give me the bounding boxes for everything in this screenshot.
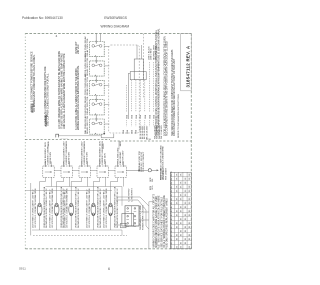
bake element xyxy=(43,165,54,177)
console dashed boundary line xyxy=(143,34,145,98)
wire below latch switch S5 xyxy=(110,216,112,230)
broil relay K2 xyxy=(90,60,105,76)
wire hook from element box to latch switch S5 xyxy=(111,177,118,203)
svg-text:2500W 240V: 2500W 240V xyxy=(86,151,88,164)
upper horizontal bus xyxy=(46,186,123,188)
svg-text:AND GAUGE. ALL REPLACEMENT WIR: AND GAUGE. ALL REPLACEMENT WIRE MUST BE … xyxy=(62,53,66,129)
svg-text:RELAY 240V COIL: RELAY 240V COIL xyxy=(86,76,89,95)
svg-text:OF ALL TERMINAL BOARD CONNECTI: OF ALL TERMINAL BOARD CONNECTIONS MADE xyxy=(163,195,166,248)
svg-text:REFER TO INSTALLATION INSTRUCT: REFER TO INSTALLATION INSTRUCTIONS xyxy=(177,94,180,138)
junction dot below K5 xyxy=(104,133,105,134)
door lock switch S2 xyxy=(54,203,59,216)
harness wire at x=126.6 xyxy=(126,85,128,112)
svg-text:L1 BK SUPPLY: L1 BK SUPPLY xyxy=(129,188,131,202)
oven light switch S1 xyxy=(37,203,42,216)
svg-text:240 VAC: 240 VAC xyxy=(76,44,80,54)
solid boundary above divider xyxy=(58,135,101,137)
lower bus hook xyxy=(121,230,123,235)
svg-text:BK14: BK14 xyxy=(171,224,173,228)
harness wire stub at x=149.3 xyxy=(148,120,150,127)
svg-text:FOB: FOB xyxy=(146,139,151,141)
svg-text:SHOWN WITH DOOR CLOSED N.C. BK: SHOWN WITH DOOR CLOSED N.C. BK-12 xyxy=(78,188,80,228)
wire between relays xyxy=(95,96,97,100)
svg-text:BK14: BK14 xyxy=(171,244,173,248)
wire below oven light switch S1 xyxy=(39,216,41,230)
harness wire stub at x=144.8 xyxy=(144,120,146,127)
svg-text:RELAY 240V COIL: RELAY 240V COIL xyxy=(86,57,89,76)
harness wire at x=135.9 xyxy=(135,80,137,112)
top stub conv element left xyxy=(81,162,83,166)
svg-text:WIRING COLOR CODE CHART FOR AL: WIRING COLOR CODE CHART FOR ALL CIRCUITS xyxy=(153,194,156,248)
svg-text:120 VOLT N.O. CONTACTS SHOWN O: 120 VOLT N.O. CONTACTS SHOWN OPEN xyxy=(51,188,54,228)
top stub warmer element left xyxy=(99,162,101,166)
junction on fuse wire xyxy=(138,170,139,171)
svg-text:BK4: BK4 xyxy=(131,130,133,134)
wire relay to control boundary xyxy=(104,104,109,106)
svg-text:BK14: BK14 xyxy=(171,200,173,204)
harness wire stub at x=135.9 xyxy=(135,120,137,127)
svg-text:LINE 2 RED: LINE 2 RED xyxy=(151,48,153,60)
svg-text:BK4: BK4 xyxy=(127,115,129,119)
wire between element boxes xyxy=(72,169,79,171)
svg-text:LETTERS INDICATE INSULATION CO: LETTERS INDICATE INSULATION COLORS HERE xyxy=(158,195,161,248)
svg-text:MOTOR 240V: MOTOR 240V xyxy=(122,150,124,164)
wire divider to element label xyxy=(118,141,120,149)
drop from upper bus to terminal block xyxy=(121,187,123,206)
svg-text:BK14: BK14 xyxy=(171,228,173,232)
supply wire 2 from frame top to relay K1 xyxy=(100,34,102,42)
wire hook from element box to door lock switch S2 xyxy=(57,177,64,203)
wiring legend table xyxy=(170,172,191,249)
svg-text:BK14: BK14 xyxy=(171,183,173,187)
svg-text:NUMBERS INDICATE WIRE GAUGE SI: NUMBERS INDICATE WIRE GAUGE SIZES USED xyxy=(155,196,158,248)
svg-text:SHOWN WITH DOOR CLOSED N.C. BK: SHOWN WITH DOOR CLOSED N.C. BK-12 xyxy=(100,188,102,228)
broil element xyxy=(61,165,72,177)
wire hook from element box to thermal limiter S4 xyxy=(93,177,99,203)
drop from warmer element to bus xyxy=(105,177,107,186)
svg-text:3400W 240V: 3400W 240V xyxy=(50,151,52,164)
harness wire at x=131.4 xyxy=(130,80,132,112)
supply wire from frame top to relay K1 xyxy=(95,34,97,42)
svg-text:750W 240V: 750W 240V xyxy=(104,153,106,165)
drop from conv element to bus xyxy=(87,177,89,186)
left vertical wire rail xyxy=(30,183,32,235)
wire between relays xyxy=(95,57,97,61)
wire hook from element box to oven light switch S1 xyxy=(40,177,46,203)
svg-text:BK14: BK14 xyxy=(171,208,173,212)
svg-text:BK4: BK4 xyxy=(140,115,142,119)
top stub bake element left xyxy=(45,162,47,166)
svg-text:WIRING ERRORS CAN CAUSE IMPROP: WIRING ERRORS CAN CAUSE IMPROPER OPERATI… xyxy=(76,65,80,130)
arrow terminal xyxy=(157,169,159,171)
svg-text:BK4: BK4 xyxy=(127,130,129,134)
svg-text:4A BK: 4A BK xyxy=(65,140,68,146)
svg-text:POWER SUPPLY 120/240V: POWER SUPPLY 120/240V xyxy=(142,204,144,230)
wire terminal block right 1 xyxy=(139,211,149,213)
harness wire stub at x=131.4 xyxy=(130,120,132,127)
drop from broil element to bus xyxy=(69,177,71,186)
legend notes block boundary xyxy=(149,202,153,249)
cooling fan motor xyxy=(115,165,126,177)
svg-text:BK14: BK14 xyxy=(171,195,173,199)
drop from cooling fan motor to bus xyxy=(123,177,125,186)
svg-text:BK14: BK14 xyxy=(171,220,173,224)
svg-text:120 VOLT N.O. CONTACTS SHOWN O: 120 VOLT N.O. CONTACTS SHOWN OPEN xyxy=(66,188,69,228)
top stub cooling fan motor left xyxy=(117,162,119,166)
svg-text:RELAY 240V COIL: RELAY 240V COIL xyxy=(86,115,89,134)
harness wire at x=153.7 xyxy=(153,62,155,112)
wire relay to control boundary xyxy=(104,84,109,86)
wire into P1 pin 1 xyxy=(136,45,138,59)
svg-text:YEL: YEL xyxy=(152,178,154,182)
svg-text:L2 RD SUPPLY: L2 RD SUPPLY xyxy=(132,188,134,202)
svg-text:RELAY 240V COIL: RELAY 240V COIL xyxy=(86,96,89,115)
drop from bake element to bus xyxy=(51,177,53,186)
svg-text:BK4: BK4 xyxy=(123,130,125,134)
svg-text:4000W 240V: 4000W 240V xyxy=(68,151,70,164)
wire from P2 to left harness xyxy=(128,73,130,119)
svg-text:ALL WIRING MUST CONFORM TO LOC: ALL WIRING MUST CONFORM TO LOCAL CODES. xyxy=(32,54,36,112)
EOC connector P2 body xyxy=(130,72,146,80)
svg-text:USE COPPER CONDUCTORS ONLY FOR: USE COPPER CONDUCTORS ONLY FOR ALL. xyxy=(45,73,49,126)
wire relay to control boundary xyxy=(104,123,109,125)
harness wire at x=144.8 xyxy=(144,80,146,112)
svg-text:120 VOLT N.O. CONTACTS SHOWN O: 120 VOLT N.O. CONTACTS SHOWN OPEN xyxy=(88,188,91,228)
svg-text:Publication No: 5995447130: Publication No: 5995447130 xyxy=(22,16,63,20)
wire element box 5 to fuse xyxy=(126,169,147,171)
wire below thermal limiter S4 xyxy=(92,216,94,230)
title block strip xyxy=(181,33,192,90)
svg-text:RELAY 240V COIL: RELAY 240V COIL xyxy=(86,37,89,56)
svg-text:BK14: BK14 xyxy=(171,175,173,179)
harness wire stub at x=126.6 xyxy=(126,120,128,127)
svg-text:BK4: BK4 xyxy=(131,115,133,119)
wire sweep 1 to legend area xyxy=(116,197,149,206)
svg-text:SHOWN WITH DOOR CLOSED N.C. BK: SHOWN WITH DOOR CLOSED N.C. BK-12 xyxy=(117,188,119,228)
wire into P1 pin 2 xyxy=(141,45,143,59)
diagram outer frame (dashed) xyxy=(25,33,191,248)
second horizontal bus xyxy=(31,190,112,192)
top stub broil element left xyxy=(63,162,65,166)
lower bus 1 xyxy=(32,229,122,231)
warmer element xyxy=(97,165,108,177)
fan relay K5 xyxy=(90,118,105,134)
svg-text:BK14: BK14 xyxy=(171,216,173,220)
svg-text:BK14: BK14 xyxy=(171,236,173,240)
svg-text:120 VOLT N.O. CONTACTS SHOWN O: 120 VOLT N.O. CONTACTS SHOWN OPEN xyxy=(105,188,108,228)
harness wire at x=140.2 xyxy=(139,80,141,112)
wire between relays xyxy=(95,115,97,119)
wire terminal block right 2 xyxy=(139,219,149,221)
svg-text:BK14: BK14 xyxy=(171,204,173,208)
top stub conv element right xyxy=(87,162,89,166)
connector bracket on divider xyxy=(56,134,59,137)
svg-text:EW30EW55GS: EW30EW55GS xyxy=(104,16,128,20)
wire between element boxes xyxy=(54,169,61,171)
svg-text:BK14: BK14 xyxy=(171,191,173,195)
svg-text:USE ONLY SPECIFIED REPLACEMENT: USE ONLY SPECIFIED REPLACEMENT WIRES xyxy=(165,198,168,248)
DLB relay K4 xyxy=(90,99,105,115)
electronic oven control dashed boundary xyxy=(109,45,139,133)
wire into small lug xyxy=(114,224,121,226)
wire below door plunger switch S3 xyxy=(70,216,72,230)
wire below door lock switch S2 xyxy=(56,216,58,230)
wire between relays xyxy=(95,76,97,80)
svg-text:6: 6 xyxy=(108,267,110,271)
svg-text:BK14: BK14 xyxy=(171,232,173,236)
bake relay K1 xyxy=(90,40,105,56)
wire from fuse xyxy=(151,169,156,171)
thermal limiter S4 xyxy=(91,203,96,216)
harness wire stub at x=153.7 xyxy=(153,120,155,127)
wire divider stub 2 xyxy=(103,144,105,150)
svg-text:WIRING DIAGRAM: WIRING DIAGRAM xyxy=(101,25,130,29)
top stub warmer element right xyxy=(105,162,107,166)
svg-text:BK4: BK4 xyxy=(145,115,147,119)
stub from left frame xyxy=(25,190,31,192)
wire hook from element box to door plunger switch S3 xyxy=(71,177,82,203)
svg-text:DISCONNECT POWER BEFORE SERVIC: DISCONNECT POWER BEFORE SERVICING ANY PA… xyxy=(172,58,176,136)
door plunger switch S3 xyxy=(69,203,74,216)
conv element xyxy=(79,165,90,177)
svg-text:4: 4 xyxy=(56,34,58,38)
svg-text:BK14: BK14 xyxy=(171,179,173,183)
harness wire at x=158.2 xyxy=(157,62,159,112)
svg-text:SHOWN WITH DOOR CLOSED N.C. BK: SHOWN WITH DOOR CLOSED N.C. BK-12 xyxy=(46,188,48,228)
section divider dashed line left xyxy=(25,139,110,141)
harness wire stub at x=158.2 xyxy=(157,120,159,127)
wire between element boxes xyxy=(108,169,115,171)
svg-text:ORG: ORG xyxy=(152,185,154,190)
svg-text:4A BK: 4A BK xyxy=(119,140,122,146)
harness wire at x=149.3 xyxy=(148,62,150,112)
svg-text:BK 14 GA 600V: BK 14 GA 600V xyxy=(145,125,148,139)
svg-text:BK4: BK4 xyxy=(136,130,138,134)
svg-text:120 VOLT N.O. CONTACTS SHOWN O: 120 VOLT N.O. CONTACTS SHOWN OPEN xyxy=(34,188,37,228)
svg-text:03/11: 03/11 xyxy=(19,266,26,270)
latch switch S5 xyxy=(108,203,113,216)
svg-text:PER CHART: PER CHART xyxy=(165,167,168,180)
top stub cooling fan motor right xyxy=(123,162,125,166)
wire between element boxes xyxy=(90,169,97,171)
EOC connector P1 body xyxy=(134,59,143,80)
top stub bake element right xyxy=(51,162,53,166)
wire relay to control boundary xyxy=(104,46,109,48)
wire relay to control boundary xyxy=(104,65,109,67)
svg-text:318547112 REV. A: 318547112 REV. A xyxy=(186,45,191,87)
svg-text:BK4: BK4 xyxy=(149,115,151,119)
svg-text:SEE SERVICE DATA SHEET FOR FUL: SEE SERVICE DATA SHEET FOR FULL DETAILS xyxy=(160,197,163,248)
svg-text:4A BK: 4A BK xyxy=(47,140,50,146)
wire sweep 2 to legend area xyxy=(116,200,149,229)
svg-text:ALL COMPONENTS ARE SHOWN IN TH: ALL COMPONENTS ARE SHOWN IN THE OFF POSI… xyxy=(165,41,169,136)
dashed ground bus xyxy=(33,234,127,236)
top stub broil element right xyxy=(69,162,71,166)
thermal fuse F1 xyxy=(148,169,151,172)
svg-text:BK14: BK14 xyxy=(171,240,173,244)
conv relay K3 xyxy=(90,79,105,95)
wire loop below relay K5 xyxy=(101,134,114,138)
svg-text:BK14: BK14 xyxy=(171,212,173,216)
svg-text:-- -- -- --: -- -- -- -- xyxy=(61,138,68,140)
svg-text:4A BK: 4A BK xyxy=(83,140,86,146)
terminal block TB1 xyxy=(121,206,140,228)
svg-text:BK4: BK4 xyxy=(136,115,138,119)
svg-text:BK14: BK14 xyxy=(171,187,173,191)
section divider dashed line right xyxy=(110,140,191,142)
svg-text:BK14: BK14 xyxy=(171,171,173,175)
svg-text:OVEN TEMPERATURE SENSOR RESIST: OVEN TEMPERATURE SENSOR RESISTANCE AT RO… xyxy=(157,28,161,136)
harness wire stub at x=140.2 xyxy=(139,120,141,127)
svg-text:TOD 120V CONTACT: TOD 120V CONTACT xyxy=(142,151,145,172)
